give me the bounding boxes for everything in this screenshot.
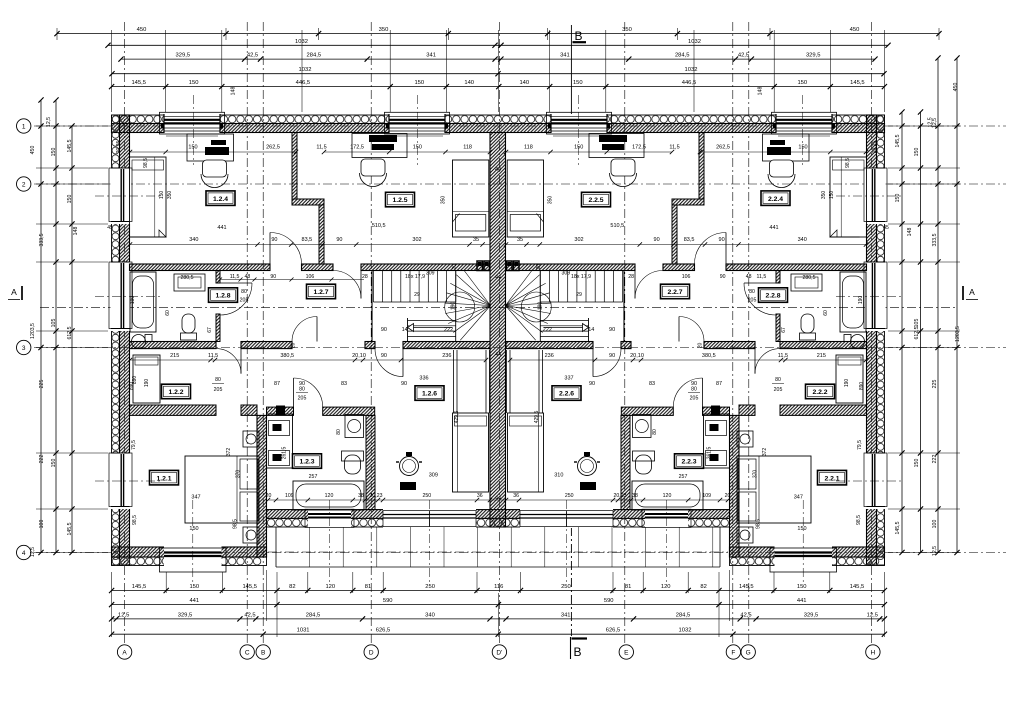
svg-text:205: 205 <box>690 396 699 402</box>
wall: left exterior masonry <box>120 115 130 565</box>
extension line left <box>36 508 108 510</box>
extension line bottom <box>352 572 354 593</box>
axis line D <box>370 22 372 643</box>
extension line bottom <box>642 572 644 593</box>
svg-text:190: 190 <box>538 302 544 311</box>
svg-text:150: 150 <box>797 526 806 532</box>
svg-text:150: 150 <box>413 144 422 150</box>
svg-text:205: 205 <box>214 387 223 393</box>
svg-text:38: 38 <box>358 493 364 499</box>
room label 2.2.6 <box>552 386 581 401</box>
bed room 1.2.2 <box>133 355 160 403</box>
axis circle F <box>726 645 740 659</box>
svg-text:145,5: 145,5 <box>850 584 865 590</box>
svg-text:83,5: 83,5 <box>302 237 313 243</box>
svg-text:309: 309 <box>561 271 570 277</box>
extension line bottom <box>520 572 522 593</box>
room label 2.2.2 <box>806 384 835 399</box>
extension line top <box>829 30 831 112</box>
axis line G <box>748 22 750 643</box>
svg-text:284,5: 284,5 <box>307 53 322 59</box>
wall: partition 1.2.4/1.2.5 upper <box>292 133 297 200</box>
extension line top <box>773 30 775 112</box>
svg-text:329,5: 329,5 <box>178 612 193 618</box>
window left jambs <box>111 452 130 454</box>
wall: top exterior insulation <box>112 115 885 124</box>
svg-text:340: 340 <box>798 237 807 243</box>
svg-text:120: 120 <box>325 493 334 499</box>
svg-text:350: 350 <box>622 27 632 33</box>
svg-text:11,5: 11,5 <box>316 144 326 150</box>
svg-text:81: 81 <box>365 584 371 590</box>
svg-text:333,5: 333,5 <box>932 233 938 246</box>
svg-text:250: 250 <box>425 584 435 590</box>
wall: bottom bedroom block insulation <box>112 557 267 566</box>
window jambs <box>550 114 552 133</box>
svg-text:150: 150 <box>51 459 57 468</box>
svg-text:380,5: 380,5 <box>702 353 716 359</box>
svg-text:370: 370 <box>753 470 759 479</box>
window jambs <box>163 114 165 133</box>
svg-text:2.2.5: 2.2.5 <box>588 197 603 204</box>
window opening top wall <box>551 114 607 134</box>
room label 1.2.7 <box>307 284 336 299</box>
wall: bath 1.2.3 right <box>366 415 375 509</box>
svg-text:A: A <box>11 287 17 297</box>
room label 2.2.7 <box>661 284 690 299</box>
shaft boxes <box>477 261 483 271</box>
svg-text:35: 35 <box>517 237 523 243</box>
window left frame <box>109 453 132 507</box>
svg-text:29: 29 <box>576 292 582 298</box>
window sill interior <box>553 135 605 137</box>
svg-text:145,5: 145,5 <box>242 584 257 590</box>
room label 2.2.1 <box>818 470 847 485</box>
stairs left unit <box>371 271 373 342</box>
top dimension row 3 (329,5 42,5 284,5 341) <box>121 58 875 60</box>
room label 2.2.4 <box>761 191 790 206</box>
svg-text:12,5: 12,5 <box>867 612 878 618</box>
svg-text:145,5: 145,5 <box>895 134 901 147</box>
wall: bath 1.2.3 top a <box>267 407 294 415</box>
axis line E <box>624 22 626 643</box>
svg-text:42,5: 42,5 <box>244 612 255 618</box>
doors right unit <box>725 233 727 265</box>
svg-text:90: 90 <box>654 237 660 243</box>
svg-text:310: 310 <box>554 473 563 479</box>
svg-text:79,5: 79,5 <box>131 440 137 450</box>
svg-text:612,5: 612,5 <box>914 326 920 339</box>
svg-text:450: 450 <box>137 27 147 33</box>
window opening top wall <box>389 114 445 134</box>
svg-text:B: B <box>575 29 583 43</box>
window centrelines top <box>193 95 195 165</box>
svg-text:80: 80 <box>775 377 781 383</box>
wall: partition 1.2.4/1.2.5 lower <box>319 205 324 264</box>
svg-text:340: 340 <box>189 237 198 243</box>
window opening left wall <box>111 453 131 509</box>
svg-text:225: 225 <box>39 380 45 389</box>
svg-text:11,5: 11,5 <box>208 353 218 359</box>
extension line top outer <box>56 28 58 40</box>
desk and chair room 1.2.5 <box>352 134 407 158</box>
svg-text:172,5: 172,5 <box>350 144 364 150</box>
svg-text:F: F <box>731 649 735 656</box>
svg-text:44: 44 <box>495 496 501 502</box>
extension line left <box>36 223 108 225</box>
window opening top wall <box>164 114 220 134</box>
extension line right <box>888 552 960 554</box>
wall: bedroom 1.2.1 right partition <box>257 415 267 557</box>
svg-text:28: 28 <box>628 274 634 280</box>
svg-text:42,5: 42,5 <box>740 612 751 618</box>
top dimension row 5 (window chain) <box>112 86 885 88</box>
extension line top <box>221 30 223 112</box>
top dimension row 4 (1032) <box>112 73 884 75</box>
svg-text:67: 67 <box>207 327 213 333</box>
svg-text:148: 148 <box>907 228 913 237</box>
bathroom 1.2.8 fixtures <box>130 272 156 332</box>
section line B top <box>570 25 572 116</box>
extension line bottom <box>883 572 885 593</box>
svg-text:150: 150 <box>414 80 424 86</box>
svg-text:20: 20 <box>266 493 272 499</box>
svg-text:150: 150 <box>574 144 583 150</box>
svg-text:336: 336 <box>419 376 428 382</box>
svg-text:261,5: 261,5 <box>707 447 713 460</box>
wall: stair hall bottom <box>365 342 375 349</box>
extension line left <box>36 261 108 263</box>
svg-text:302: 302 <box>574 237 583 243</box>
svg-text:205: 205 <box>298 396 307 402</box>
svg-text:145,5: 145,5 <box>67 522 73 535</box>
axis circle A <box>117 645 131 659</box>
svg-text:284,5: 284,5 <box>675 53 690 59</box>
svg-text:450: 450 <box>850 27 860 33</box>
wall: corridor top <box>361 264 490 271</box>
svg-text:284,5: 284,5 <box>676 612 691 618</box>
extension line top outer <box>547 28 549 40</box>
svg-text:20,25: 20,25 <box>116 141 122 154</box>
svg-text:350: 350 <box>547 196 553 205</box>
svg-text:140: 140 <box>464 80 474 86</box>
extension line top <box>165 30 167 112</box>
living room 1.2.6 furniture <box>453 413 489 492</box>
extension line top <box>605 30 607 112</box>
svg-text:82: 82 <box>700 584 706 590</box>
svg-text:510,5: 510,5 <box>610 223 624 229</box>
extension line top <box>389 30 391 112</box>
svg-text:11,5: 11,5 <box>230 274 240 280</box>
svg-text:109: 109 <box>285 493 294 499</box>
extension line bottom <box>612 572 614 593</box>
duct lines right <box>542 350 544 413</box>
svg-text:12,5: 12,5 <box>30 547 36 557</box>
svg-text:150: 150 <box>51 148 57 157</box>
window top frame <box>385 112 450 134</box>
svg-text:120: 120 <box>661 584 671 590</box>
svg-text:1.2.6: 1.2.6 <box>422 391 437 398</box>
bathroom 1.2.3 fixtures <box>267 414 293 468</box>
extension line top <box>111 30 113 112</box>
svg-text:222: 222 <box>543 327 552 333</box>
axis circle 3 <box>17 340 31 354</box>
svg-text:350: 350 <box>167 191 173 200</box>
svg-text:2.2.6: 2.2.6 <box>559 391 574 398</box>
svg-text:150: 150 <box>189 80 199 86</box>
extension line right <box>888 452 960 454</box>
svg-text:261,5: 261,5 <box>281 447 287 460</box>
window jamb blocks <box>386 124 389 129</box>
dim line mid rooms <box>130 244 490 246</box>
svg-text:83: 83 <box>341 381 347 387</box>
svg-text:172,5: 172,5 <box>632 144 646 150</box>
svg-text:215: 215 <box>170 353 179 359</box>
svg-text:120: 120 <box>663 493 672 499</box>
svg-text:D': D' <box>496 649 502 656</box>
svg-text:80: 80 <box>336 429 342 435</box>
window sill interior <box>166 135 218 137</box>
svg-text:G: G <box>746 649 751 656</box>
window left glazing <box>120 454 122 506</box>
right margin dim line 1 <box>956 58 958 553</box>
svg-text:14: 14 <box>402 327 408 333</box>
svg-text:116: 116 <box>494 584 503 590</box>
wardrobe room 1.2.4 <box>130 157 167 237</box>
svg-text:90: 90 <box>270 274 276 280</box>
svg-text:215: 215 <box>817 353 826 359</box>
window bottom centre frame <box>642 509 691 527</box>
svg-text:257: 257 <box>679 474 688 480</box>
svg-text:341: 341 <box>561 612 571 618</box>
svg-text:38: 38 <box>632 493 638 499</box>
svg-text:106: 106 <box>306 274 315 280</box>
svg-text:1.2.4: 1.2.4 <box>213 196 228 203</box>
svg-text:145,5: 145,5 <box>850 80 865 86</box>
extension line bottom 2 <box>111 593 113 637</box>
svg-text:145,5: 145,5 <box>895 521 901 534</box>
svg-text:2: 2 <box>22 181 26 188</box>
bottom dimension row 1 (window chain) <box>112 590 885 592</box>
svg-text:150: 150 <box>189 526 198 532</box>
extension line right <box>888 167 960 169</box>
window left frame <box>109 262 132 329</box>
svg-text:80: 80 <box>749 289 755 295</box>
axis line 3 <box>34 347 1006 349</box>
svg-text:42,5: 42,5 <box>247 53 258 59</box>
svg-text:42,5: 42,5 <box>738 53 749 59</box>
wall: bottom bedroom block masonry <box>112 547 267 557</box>
extension line bottom 3 <box>266 570 268 621</box>
extension line top outer <box>938 28 940 40</box>
svg-text:20: 20 <box>698 343 704 349</box>
svg-text:80: 80 <box>215 377 221 383</box>
svg-text:205: 205 <box>774 387 783 393</box>
svg-text:1032: 1032 <box>688 39 701 45</box>
dim line rooms top <box>130 151 296 153</box>
svg-text:190: 190 <box>844 379 850 388</box>
svg-text:450: 450 <box>30 146 36 155</box>
extension line top outer <box>676 28 678 40</box>
extension line right <box>888 183 960 185</box>
svg-text:20: 20 <box>536 264 542 270</box>
axis line D' <box>498 22 500 643</box>
svg-text:370: 370 <box>235 470 241 479</box>
svg-text:145,5: 145,5 <box>132 584 147 590</box>
room label 1.2.5 <box>386 192 415 207</box>
wall: corridor bottom <box>241 342 292 349</box>
svg-text:20,23: 20,23 <box>614 493 627 499</box>
svg-text:20,23: 20,23 <box>370 493 383 499</box>
axis line A <box>124 22 126 643</box>
extension line top outer <box>447 28 449 40</box>
svg-text:150: 150 <box>189 584 199 590</box>
window bottom frame <box>160 548 227 572</box>
window top frame <box>772 112 837 134</box>
window top frame <box>547 112 612 134</box>
stairs right unit <box>623 271 625 342</box>
extension line bottom <box>829 572 831 593</box>
svg-text:118: 118 <box>463 144 472 150</box>
terrace door opening <box>383 509 476 528</box>
extension line right <box>888 261 960 263</box>
svg-text:1032: 1032 <box>295 39 308 45</box>
wall: stair bottom <box>403 342 490 349</box>
svg-text:612,5: 612,5 <box>67 326 73 339</box>
window jamb blocks <box>773 124 776 129</box>
svg-text:118: 118 <box>524 144 533 150</box>
svg-text:150: 150 <box>798 144 807 150</box>
wall: bath 1.2.3 top b <box>323 407 375 415</box>
svg-text:190: 190 <box>451 302 457 311</box>
extension line bottom 2 <box>276 593 278 637</box>
axis line H <box>870 22 872 643</box>
svg-text:11,5: 11,5 <box>669 144 679 150</box>
svg-text:3: 3 <box>22 345 26 352</box>
svg-text:510,5: 510,5 <box>372 223 386 229</box>
wall: corridor bottom <box>130 342 217 349</box>
window glazing lines <box>551 119 607 121</box>
svg-text:C: C <box>245 649 250 656</box>
svg-text:150: 150 <box>67 195 73 204</box>
room label 1.2.6 <box>415 386 444 401</box>
svg-text:98,5: 98,5 <box>233 519 239 529</box>
wall cap black bathroom door <box>276 406 285 416</box>
svg-text:333,5: 333,5 <box>39 233 45 246</box>
axis circle 2 <box>17 177 31 191</box>
wall: bath 1.2.8 right lower <box>216 314 220 342</box>
svg-text:79,5: 79,5 <box>857 440 863 450</box>
axis circle H <box>866 645 880 659</box>
window bottom centre glazing <box>308 513 351 515</box>
extension line bottom <box>687 572 689 593</box>
terrace deck <box>275 527 277 567</box>
extension line left <box>36 347 108 349</box>
left margin dim line 3 <box>71 126 73 553</box>
svg-text:284,5: 284,5 <box>306 612 321 618</box>
svg-text:B: B <box>261 649 265 656</box>
extension line right <box>888 125 960 127</box>
extension line right <box>888 330 960 332</box>
axis line B <box>262 22 264 643</box>
svg-text:45: 45 <box>107 225 113 231</box>
svg-text:205: 205 <box>240 298 249 304</box>
svg-text:18x 17,9: 18x 17,9 <box>571 274 591 280</box>
svg-text:2.2.2: 2.2.2 <box>812 389 827 396</box>
svg-text:81: 81 <box>625 584 631 590</box>
svg-text:18x 17,9: 18x 17,9 <box>405 274 425 280</box>
svg-text:28: 28 <box>362 274 368 280</box>
window bottom centre glazing <box>645 513 688 515</box>
svg-text:20: 20 <box>452 264 458 270</box>
svg-text:B: B <box>574 645 582 659</box>
svg-text:309: 309 <box>429 473 438 479</box>
extension line bottom 2 <box>497 593 499 637</box>
window opening left wall <box>111 262 131 331</box>
svg-text:H: H <box>871 649 876 656</box>
svg-text:590: 590 <box>604 598 614 604</box>
svg-text:80: 80 <box>299 387 305 393</box>
svg-text:90: 90 <box>381 353 387 359</box>
svg-text:145,5: 145,5 <box>67 139 73 152</box>
svg-text:1.2.7: 1.2.7 <box>313 289 328 296</box>
svg-text:1: 1 <box>22 123 26 130</box>
svg-text:90: 90 <box>720 274 726 280</box>
svg-text:12,5: 12,5 <box>928 117 934 127</box>
bed room 1.2.5 <box>453 160 489 237</box>
left margin dim line 2 <box>55 100 57 553</box>
svg-text:82: 82 <box>289 584 295 590</box>
svg-text:87: 87 <box>274 381 280 387</box>
axis circle B <box>256 645 270 659</box>
window left frame <box>109 168 132 222</box>
extension line bottom <box>165 572 167 593</box>
svg-text:98,5: 98,5 <box>756 519 762 529</box>
svg-text:429,5: 429,5 <box>454 411 460 424</box>
axis line 4 <box>34 552 1006 554</box>
dim line corridor <box>220 279 364 281</box>
svg-text:90: 90 <box>589 381 595 387</box>
svg-text:150: 150 <box>797 584 807 590</box>
svg-text:890: 890 <box>859 382 865 391</box>
axis circle D' <box>492 645 506 659</box>
svg-text:80: 80 <box>241 289 247 295</box>
svg-text:100: 100 <box>39 520 45 529</box>
svg-text:441: 441 <box>769 225 778 231</box>
svg-text:90: 90 <box>401 381 407 387</box>
extension line right <box>888 347 960 349</box>
svg-text:280,5: 280,5 <box>181 275 194 281</box>
window sill interior <box>778 135 830 137</box>
room label 2.2.3 <box>675 454 704 469</box>
svg-text:D: D <box>369 649 374 656</box>
svg-text:36: 36 <box>513 493 519 499</box>
svg-text:109: 109 <box>702 493 711 499</box>
svg-text:44: 44 <box>495 167 501 173</box>
wall: bottom centre masonry <box>267 510 730 519</box>
svg-text:20: 20 <box>725 493 731 499</box>
svg-text:2.2.7: 2.2.7 <box>667 289 682 296</box>
svg-text:1.2.5: 1.2.5 <box>392 197 407 204</box>
extension line bottom <box>221 572 223 593</box>
svg-text:329,5: 329,5 <box>176 53 191 59</box>
extension line bottom <box>307 572 309 593</box>
window glazing lines <box>389 119 445 121</box>
svg-text:309: 309 <box>426 271 435 277</box>
window opening bottom centre <box>645 509 688 528</box>
svg-text:44: 44 <box>495 352 501 358</box>
svg-text:1032: 1032 <box>685 67 698 73</box>
